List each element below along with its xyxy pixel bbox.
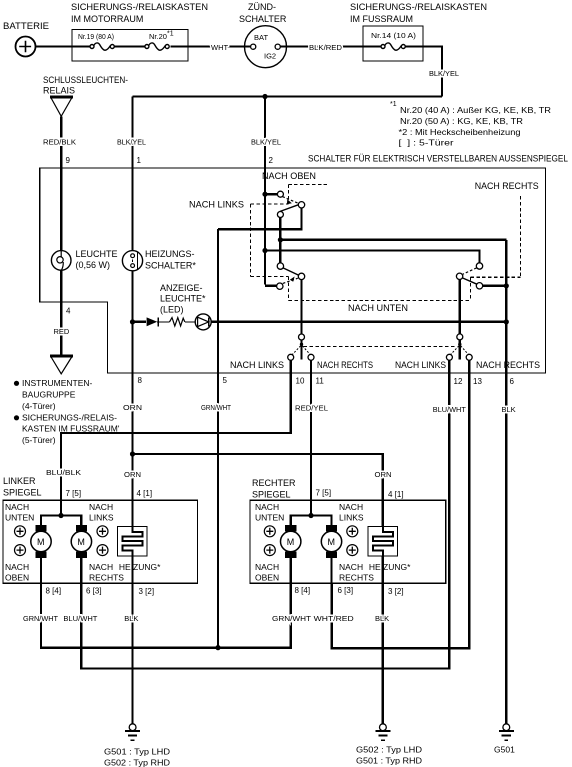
svg-text:NACH: NACH	[339, 562, 363, 572]
left mirror horizontal motor	[71, 525, 91, 558]
svg-text:NACH UNTEN: NACH UNTEN	[348, 303, 408, 313]
wire 2 BLK/YEL down into switch box	[265, 97, 274, 195]
dashed link arrow onto upper blade	[287, 199, 292, 204]
fuse/relay box engine compartment	[71, 2, 208, 61]
svg-text:LEUCHTE*: LEUCHTE*	[160, 294, 206, 304]
svg-text:NACH RECHTS: NACH RECHTS	[317, 360, 373, 370]
svg-text:10: 10	[296, 377, 305, 386]
svg-text:Nr.19 (80 A): Nr.19 (80 A)	[78, 32, 114, 41]
left mirror box	[3, 476, 198, 583]
horizontal wire to wire 6 top	[280, 239, 506, 241]
contact D3	[476, 283, 482, 289]
dashed link arrow onto lower blade	[290, 277, 295, 282]
blade A3-A2 solid	[280, 204, 300, 211]
svg-text:RELAIS: RELAIS	[43, 86, 75, 96]
wire 10 to left mirror 7[5]	[61, 360, 291, 500]
svg-text:HEIZUNG*: HEIZUNG*	[119, 562, 161, 572]
junction wire2 to contact A1	[262, 192, 267, 197]
right mirror direction symbols	[264, 526, 275, 537]
svg-text:BAUGRUPPE: BAUGRUPPE	[22, 390, 76, 400]
right mirror motor bottom wires	[291, 558, 332, 583]
svg-text:5: 5	[223, 376, 228, 385]
mirror switch unit box outline	[40, 154, 568, 374]
wire WHT to ignition switch	[171, 43, 251, 52]
contact B3	[277, 283, 283, 289]
left mirror direction labels	[5, 502, 124, 583]
contact A1	[277, 191, 283, 197]
left wiper contacts 10 11	[288, 354, 294, 360]
fuse/relay box footwell	[350, 2, 487, 61]
svg-text:IM MOTORRAUM: IM MOTORRAUM	[71, 14, 143, 24]
wire between fuses	[114, 45, 145, 47]
junction wire2 to lower-left switch feed	[262, 248, 267, 253]
svg-text:11: 11	[316, 377, 325, 386]
wire D2 down to right wiper	[458, 280, 460, 334]
left mirror direction symbols	[15, 526, 26, 537]
wire A3 down to B1	[279, 218, 281, 263]
svg-text:NACH LINKS: NACH LINKS	[230, 360, 284, 370]
junction wire 5 on bus	[215, 645, 220, 650]
left mirror vertical motor	[31, 525, 51, 558]
svg-text:RECHTER: RECHTER	[252, 478, 296, 488]
svg-text:2: 2	[269, 156, 274, 165]
left wiper dashed travel	[292, 346, 310, 355]
fuse Nr.19 (80A)	[78, 32, 114, 50]
contact A2	[298, 202, 304, 208]
ground G501 right	[494, 724, 515, 755]
svg-text:4 [1]: 4 [1]	[137, 489, 153, 498]
wire 2 elbow to contact B3	[265, 194, 277, 286]
wire 9 lamp to ground triangle, pin 4, RED	[61, 270, 71, 355]
svg-text:BLK: BLK	[124, 614, 138, 623]
wire colour labels layer	[23, 69, 516, 623]
right wiper common circle	[457, 334, 463, 340]
svg-text:(LED): (LED)	[160, 305, 184, 315]
junction wire 2 on bus	[262, 94, 267, 99]
svg-text:RED/YEL: RED/YEL	[295, 404, 328, 413]
svg-text:BLK/YEL: BLK/YEL	[117, 138, 146, 147]
wire 11 to right mirror 7[5]	[310, 360, 312, 500]
left mirror bottom pin labels	[46, 587, 155, 597]
svg-text:SICHERUNGS-/RELAIS-: SICHERUNGS-/RELAIS-	[22, 413, 117, 423]
wire A2 to wire 5	[218, 208, 302, 229]
svg-text:LINKS: LINKS	[339, 513, 364, 523]
fuse Nr.14 (10A)	[371, 31, 417, 50]
left mirror motor bottom wires	[41, 558, 81, 583]
ORN branch to right mirror 4[1]	[133, 454, 383, 527]
svg-text:RECHTS: RECHTS	[89, 573, 124, 583]
svg-text:SCHALTER*: SCHALTER*	[145, 261, 196, 271]
svg-text:M: M	[37, 537, 45, 547]
right wiper dashed travel	[451, 346, 469, 355]
svg-text:ANZEIGE-: ANZEIGE-	[160, 283, 203, 293]
svg-text:Nr.20 (50 A) : KG, KE, KB, TR: Nr.20 (50 A) : KG, KE, KB, TR	[400, 116, 523, 126]
svg-text:BLK/RED: BLK/RED	[309, 43, 343, 52]
junction right mirror motors	[308, 513, 313, 518]
wire 6 vertical BLK	[505, 240, 507, 724]
junction LED line wire6	[504, 319, 509, 324]
right mirror heater	[368, 527, 411, 573]
blade B1-B2 solid	[283, 268, 298, 275]
svg-text:Nr.14 (10 A): Nr.14 (10 A)	[371, 31, 417, 40]
wire 1 heater switch down to pin 8	[131, 271, 133, 527]
svg-text:6 [3]: 6 [3]	[338, 586, 354, 595]
wire left mirror 3[2] BLK to ground	[131, 556, 133, 724]
wire BLK/YEL from fuse 14 down to main bus	[405, 47, 442, 97]
svg-text:NACH: NACH	[89, 562, 113, 572]
right wiper contacts 12 13	[446, 354, 452, 360]
svg-text:(0,56 W): (0,56 W)	[76, 260, 111, 270]
contact B2	[298, 273, 304, 279]
junction ORN branch	[130, 451, 135, 456]
wire right mirror 3[2] BLK to ground	[382, 556, 384, 724]
junction left mirror motors	[58, 513, 63, 518]
svg-text:INSTRUMENTEN-: INSTRUMENTEN-	[22, 378, 93, 388]
svg-text:NACH RECHTS: NACH RECHTS	[475, 181, 539, 191]
indicator LED ANZEIGE-LEUCHTE	[133, 283, 212, 330]
svg-text:IG2: IG2	[264, 52, 276, 61]
right mirror vertical motor	[281, 525, 301, 558]
svg-text:G502 : Typ LHD: G502 : Typ LHD	[356, 745, 422, 755]
svg-text:NACH: NACH	[339, 502, 363, 512]
contact B1	[277, 263, 283, 269]
svg-text:6 [3]: 6 [3]	[86, 587, 102, 596]
svg-text:G502 : Typ RHD: G502 : Typ RHD	[104, 758, 170, 767]
right mirror box	[250, 478, 446, 583]
svg-text:LINKER: LINKER	[3, 476, 36, 486]
left mirror heater	[118, 527, 162, 573]
svg-text:SCHALTER FÜR ELEKTRISCH VERSTE: SCHALTER FÜR ELEKTRISCH VERSTELLBAREN AU…	[308, 154, 568, 164]
left wiper blade	[300, 340, 302, 360]
right wiper blade	[459, 340, 461, 360]
svg-text:*1: *1	[167, 31, 174, 38]
svg-text:NACH OBEN: NACH OBEN	[262, 171, 316, 181]
svg-text:G501: G501	[494, 745, 515, 755]
blade D1-D2 dashed alternate	[463, 268, 477, 274]
right mirror bottom pin labels	[295, 586, 404, 596]
svg-text:ORN: ORN	[123, 403, 142, 412]
battery	[3, 21, 49, 57]
ground triangle instrument cluster	[50, 356, 73, 374]
LED line to wire 6	[211, 321, 506, 323]
svg-text:BATTERIE: BATTERIE	[3, 21, 49, 31]
svg-text:OBEN: OBEN	[255, 573, 279, 583]
svg-text:NACH LINKS: NACH LINKS	[395, 360, 446, 370]
note text *1	[390, 101, 551, 148]
wire 12 to left mirror 6[3]	[81, 360, 449, 668]
svg-text:8 [4]: 8 [4]	[46, 587, 62, 596]
svg-text:OBEN: OBEN	[5, 573, 29, 583]
wire 10 pin label RED/YEL	[296, 377, 325, 386]
svg-text:UNTEN: UNTEN	[255, 513, 284, 523]
horizontal wire to right switch D1	[265, 251, 480, 263]
blade B3-B2 dashed alternate	[283, 278, 298, 283]
svg-text:NACH: NACH	[89, 502, 113, 512]
svg-text:GRN/WHT: GRN/WHT	[272, 614, 311, 623]
svg-text:NACH: NACH	[5, 562, 29, 572]
svg-text:GRN/WHT: GRN/WHT	[23, 614, 58, 623]
svg-text:1: 1	[137, 156, 142, 165]
svg-text:M: M	[77, 537, 85, 547]
svg-text:SPIEGEL: SPIEGEL	[3, 488, 42, 498]
tail light relay SCHLUSSLEUCHTEN-RELAIS	[43, 75, 128, 116]
svg-text:3 [2]: 3 [2]	[139, 587, 155, 596]
svg-text:BLU/BLK: BLU/BLK	[46, 468, 81, 477]
svg-text:ORN: ORN	[124, 470, 141, 479]
svg-text:3 [2]: 3 [2]	[388, 587, 404, 596]
svg-text:HEIZUNG*: HEIZUNG*	[369, 562, 411, 572]
svg-text:7 [5]: 7 [5]	[316, 489, 332, 498]
svg-text:SICHERUNGS-/RELAISKASTEN: SICHERUNGS-/RELAISKASTEN	[71, 2, 208, 12]
wire 5 vertical	[217, 229, 219, 647]
contact D1	[476, 263, 482, 269]
svg-text:NACH LINKS: NACH LINKS	[189, 200, 244, 210]
svg-text:M: M	[287, 537, 295, 547]
wire 9 RED/BLK from relay to switch	[61, 116, 70, 250]
dashed linkage bottom run to right switch	[289, 196, 521, 301]
dashed linkage left switch box	[251, 204, 289, 277]
svg-text:WHT/RED: WHT/RED	[314, 614, 355, 623]
right mirror 7[5] internal wire	[291, 500, 332, 525]
svg-text:RECHTS: RECHTS	[339, 573, 374, 583]
svg-text:[ ] : 5-Türer: [ ] : 5-Türer	[399, 138, 454, 148]
svg-text:SCHLUSSLEUCHTEN-: SCHLUSSLEUCHTEN-	[43, 75, 128, 85]
wire D3 to wire 6	[483, 285, 507, 287]
wire 5 bus to mirror 8[4] both sides	[41, 583, 291, 647]
svg-text:NACH: NACH	[255, 562, 279, 572]
svg-text:*1: *1	[390, 101, 397, 108]
svg-text:13: 13	[473, 377, 482, 386]
wire BLK/RED	[281, 43, 382, 52]
contact A3	[277, 212, 283, 218]
left wiper common circle	[299, 334, 305, 340]
blade D3-D2 solid	[462, 278, 477, 284]
svg-text:NACH: NACH	[5, 502, 29, 512]
heater switch HEIZUNGS-SCHALTER	[122, 249, 196, 271]
svg-text:SCHALTER: SCHALTER	[239, 14, 287, 24]
svg-text:BLK: BLK	[502, 405, 516, 414]
wire B2 down to left wiper	[300, 280, 302, 334]
svg-text:BLK: BLK	[375, 614, 389, 623]
svg-text:Nr.20: Nr.20	[149, 32, 167, 41]
horizontal BLK/YEL bus	[133, 95, 443, 97]
svg-text:UNTEN: UNTEN	[5, 513, 34, 523]
dashed linkage between wipers	[304, 345, 457, 347]
svg-text:9: 9	[66, 156, 71, 165]
feed to contact A1	[265, 193, 277, 195]
svg-text:BLK/YEL: BLK/YEL	[251, 138, 281, 147]
junction D3 wire6	[504, 283, 509, 288]
svg-text:NACH: NACH	[255, 502, 279, 512]
svg-text:IM FUSSRAUM: IM FUSSRAUM	[350, 14, 413, 24]
svg-text:M: M	[328, 537, 336, 547]
svg-text:(5-Türer): (5-Türer)	[22, 435, 56, 445]
wire 8 ORN labels	[138, 376, 143, 385]
blade A1-A2 dashed alternate	[282, 197, 298, 204]
svg-text:4: 4	[66, 307, 71, 316]
svg-text:12: 12	[454, 377, 463, 386]
svg-text:LINKS: LINKS	[89, 513, 114, 523]
svg-text:6: 6	[510, 377, 515, 386]
ground G501/G502 left	[104, 724, 170, 767]
svg-text:SICHERUNGS-/RELAISKASTEN: SICHERUNGS-/RELAISKASTEN	[350, 2, 487, 12]
svg-text:BLU/WHT: BLU/WHT	[433, 405, 466, 414]
instrument cluster notes	[14, 378, 120, 445]
svg-text:(4-Türer): (4-Türer)	[22, 401, 56, 411]
wire 1 BLK/YEL down into switch box	[133, 97, 142, 251]
svg-text:ORN: ORN	[375, 470, 392, 479]
svg-text:NACH RECHTS: NACH RECHTS	[476, 360, 540, 370]
svg-text:RED: RED	[54, 327, 70, 336]
ignition switch ZUND-SCHALTER	[239, 2, 287, 68]
lamp LEUCHTE 0,56W	[51, 249, 117, 270]
wire 13 to right mirror 6[3]	[332, 360, 469, 648]
svg-text:ZÜND-: ZÜND-	[248, 2, 276, 12]
svg-text:G501 : Typ LHD: G501 : Typ LHD	[104, 747, 170, 757]
junction LED branch	[130, 319, 135, 324]
svg-text:G501 : Typ RHD: G501 : Typ RHD	[356, 756, 422, 766]
fuse Nr.20	[145, 31, 174, 51]
svg-text:RED/BLK: RED/BLK	[43, 138, 76, 147]
svg-text:HEIZUNGS-: HEIZUNGS-	[145, 249, 195, 259]
right mirror horizontal motor	[321, 525, 341, 558]
svg-text:WHT: WHT	[211, 43, 228, 52]
contact D2	[456, 273, 462, 279]
svg-text:8 [4]: 8 [4]	[295, 586, 311, 595]
ground G502/G501 middle	[356, 724, 422, 766]
svg-text:BAT: BAT	[254, 33, 268, 42]
svg-text:7 [5]: 7 [5]	[66, 489, 82, 498]
svg-text:*2 : Mit Heckscheibenheizung: *2 : Mit Heckscheibenheizung	[399, 127, 521, 137]
junction on A3-B1 wire	[278, 237, 283, 242]
svg-text:Nr.20 (40 A) : Außer KG, KE, K: Nr.20 (40 A) : Außer KG, KE, KB, TR	[400, 105, 551, 115]
svg-text:8: 8	[138, 376, 143, 385]
svg-text:BLK/YEL: BLK/YEL	[429, 69, 459, 78]
dashed mechanical linkage NACH OBEN box	[288, 184, 327, 199]
wire battery to fuse box	[36, 45, 90, 47]
svg-text:GRN/WHT: GRN/WHT	[201, 403, 231, 412]
right mirror direction labels	[255, 502, 374, 583]
svg-text:SPIEGEL: SPIEGEL	[252, 490, 291, 500]
svg-text:4 [1]: 4 [1]	[388, 490, 404, 499]
wire 12 13 pin labels BLU/WHT	[454, 377, 483, 386]
svg-text:BLU/WHT: BLU/WHT	[63, 614, 97, 623]
left mirror 7[5] internal wire	[41, 500, 81, 525]
svg-text:LEUCHTE: LEUCHTE	[76, 249, 118, 259]
